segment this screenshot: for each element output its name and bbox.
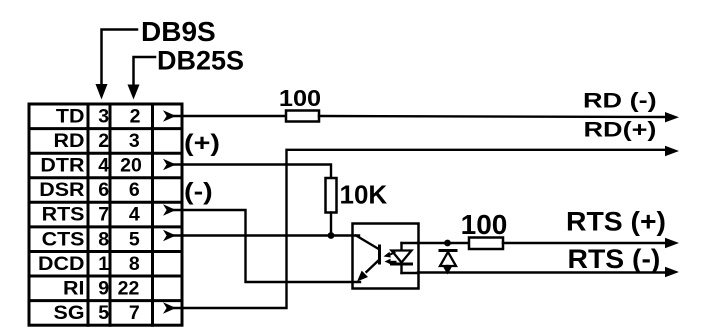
- svg-text:(-): (-): [184, 178, 213, 205]
- svg-text:RD(+): RD(+): [584, 118, 657, 142]
- resistor R3 (100 ohm): [469, 238, 503, 250]
- svg-text:CTS: CTS: [42, 228, 85, 250]
- svg-text:RD (-): RD (-): [583, 89, 657, 113]
- resistor R2 (10K): [326, 178, 337, 213]
- svg-text:100: 100: [461, 209, 508, 240]
- svg-text:DTR: DTR: [40, 154, 84, 176]
- U1 phototransistor collector: [356, 236, 380, 250]
- svg-text:20: 20: [120, 155, 142, 177]
- svg-text:100: 100: [279, 86, 321, 112]
- svg-text:22: 22: [118, 277, 140, 299]
- DB25S leader arrow: [128, 57, 156, 100]
- row RI pins 9 / 22: [63, 277, 139, 299]
- U1 LED triangle: [392, 251, 412, 263]
- svg-text:10K: 10K: [340, 180, 388, 210]
- output dart RTS: [163, 204, 176, 215]
- svg-text:1: 1: [98, 253, 109, 275]
- junction dot R2/CTS: [328, 232, 335, 239]
- diode D1 triangle: [440, 252, 456, 266]
- svg-text:(+): (+): [184, 129, 220, 156]
- output dart SG: [163, 302, 176, 313]
- row DSR pins 6 / 6: [39, 179, 140, 201]
- U1 light arrow lower: [385, 259, 396, 265]
- arrowhead RTS(-): [665, 267, 679, 277]
- wire SG to RD(+) riser: [174, 150, 668, 308]
- connector table frame: [29, 104, 182, 325]
- wire CTS to opto collector: [174, 234, 359, 236]
- output dart DTR: [163, 159, 176, 170]
- U1 emitter arrowhead: [357, 271, 368, 282]
- wire R2 bottom to CTS line: [330, 213, 332, 236]
- svg-text:2: 2: [130, 105, 141, 127]
- svg-text:7: 7: [129, 302, 140, 324]
- arrowhead RD(-): [665, 112, 679, 122]
- row CTS pins 8 / 5: [42, 228, 140, 250]
- svg-text:DSR: DSR: [39, 179, 84, 201]
- wire TD to R1: [174, 115, 286, 117]
- svg-text:5: 5: [129, 228, 140, 250]
- svg-text:DB25S: DB25S: [157, 46, 244, 76]
- optocoupler U1 box: [353, 224, 419, 289]
- wire RTS to opto emitter: [174, 210, 360, 282]
- svg-text:8: 8: [98, 228, 109, 250]
- diode D1 lead and bottom arrowhead: [443, 266, 452, 275]
- svg-text:DB9S: DB9S: [141, 16, 216, 47]
- output dart CTS: [163, 230, 176, 241]
- U1 LED top stub to box edge: [402, 242, 419, 244]
- svg-text:8: 8: [129, 253, 140, 275]
- svg-text:3: 3: [129, 130, 140, 152]
- U1 LED anode lead: [400, 243, 402, 251]
- row RTS pins 7 / 4: [42, 204, 140, 226]
- arrowhead RTS(+): [665, 238, 679, 248]
- U1 light arrow upper: [384, 252, 395, 258]
- wire U1 to RTS(-) output: [418, 271, 668, 273]
- svg-text:3: 3: [98, 105, 109, 127]
- svg-text:RTS (+): RTS (+): [566, 206, 666, 236]
- svg-text:4: 4: [98, 155, 109, 177]
- svg-text:SG: SG: [54, 302, 85, 324]
- row TD pins 3 / 2: [56, 105, 141, 127]
- svg-text:5: 5: [98, 302, 109, 324]
- output dart TD: [163, 110, 176, 121]
- svg-text:RTS: RTS: [42, 204, 85, 226]
- arrowhead RD(+): [665, 146, 679, 156]
- svg-text:7: 7: [98, 204, 109, 226]
- svg-text:6: 6: [98, 179, 109, 201]
- svg-text:RTS (-): RTS (-): [568, 244, 661, 274]
- svg-text:RD: RD: [54, 130, 85, 152]
- wire DTR to R2: [174, 165, 331, 179]
- svg-text:4: 4: [129, 204, 140, 226]
- junction dot D1 top: [444, 240, 451, 247]
- U1 phototransistor base bar: [378, 246, 381, 263]
- diode D1 cathode bar: [440, 249, 456, 252]
- resistor R1 (100 ohm): [286, 111, 319, 122]
- svg-text:TD: TD: [56, 105, 85, 127]
- row DTR pins 4 / 20: [40, 154, 142, 176]
- svg-text:9: 9: [98, 277, 109, 299]
- wire R3 to RTS(+) output: [503, 242, 668, 244]
- svg-text:6: 6: [129, 179, 140, 201]
- row RD pins 2 / 3: [54, 130, 140, 152]
- row SG pins 5 / 7: [54, 302, 140, 324]
- U1 LED cathode lead: [400, 264, 402, 273]
- wire R1 to RD(-) output: [319, 116, 668, 117]
- U1 LED cathode bar: [392, 263, 412, 266]
- wire U1 to R3: [418, 242, 469, 244]
- svg-text:2: 2: [98, 130, 109, 152]
- row DCD pins 1 / 8: [38, 253, 140, 275]
- svg-text:DCD: DCD: [38, 253, 84, 275]
- svg-text:RI: RI: [63, 277, 84, 299]
- U1 LED bottom stub to box edge: [402, 272, 419, 274]
- DB9S leader arrow: [96, 30, 138, 100]
- U1 phototransistor emitter: [367, 260, 380, 272]
